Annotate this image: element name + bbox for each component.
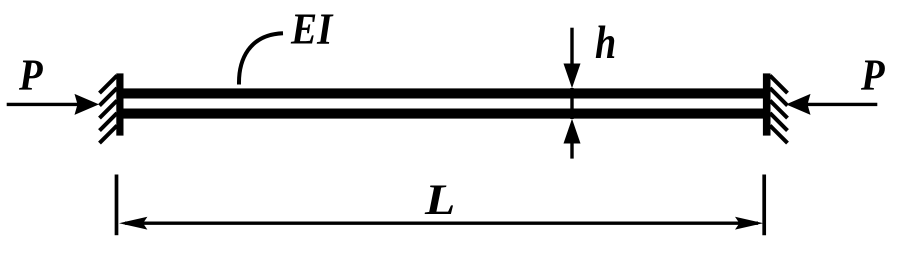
L dimension right arrowhead bbox=[735, 217, 763, 230]
h dimension upper line bbox=[570, 28, 573, 70]
right support wall bar bbox=[763, 73, 771, 135]
svg-text:h: h bbox=[595, 18, 616, 69]
right force arrow P shaft bbox=[806, 103, 877, 106]
h dimension connector through beam bbox=[570, 88, 573, 119]
svg-text:P: P bbox=[860, 51, 885, 100]
h dimension upper arrowhead (down) bbox=[564, 64, 581, 89]
left support wall bar bbox=[116, 73, 123, 135]
L dimension extension tick left bbox=[115, 175, 119, 236]
EI leader curve bbox=[239, 33, 283, 84]
h dimension lower arrowhead (up) bbox=[564, 119, 581, 144]
left support hatching bbox=[100, 76, 118, 144]
left force arrow P shaft bbox=[7, 103, 78, 106]
svg-text:L: L bbox=[424, 176, 455, 224]
svg-text:EI: EI bbox=[290, 5, 334, 54]
beam bottom flange bbox=[120, 109, 767, 119]
left force arrow head bbox=[75, 94, 100, 115]
L dimension line bbox=[125, 221, 758, 224]
beam top flange bbox=[120, 88, 767, 98]
L dimension left arrowhead bbox=[119, 217, 147, 230]
svg-text:P: P bbox=[18, 51, 43, 100]
right support hatching bbox=[770, 76, 788, 144]
right force arrow head bbox=[786, 94, 811, 115]
h dimension lower line bbox=[570, 140, 573, 159]
L dimension extension tick right bbox=[762, 175, 766, 236]
